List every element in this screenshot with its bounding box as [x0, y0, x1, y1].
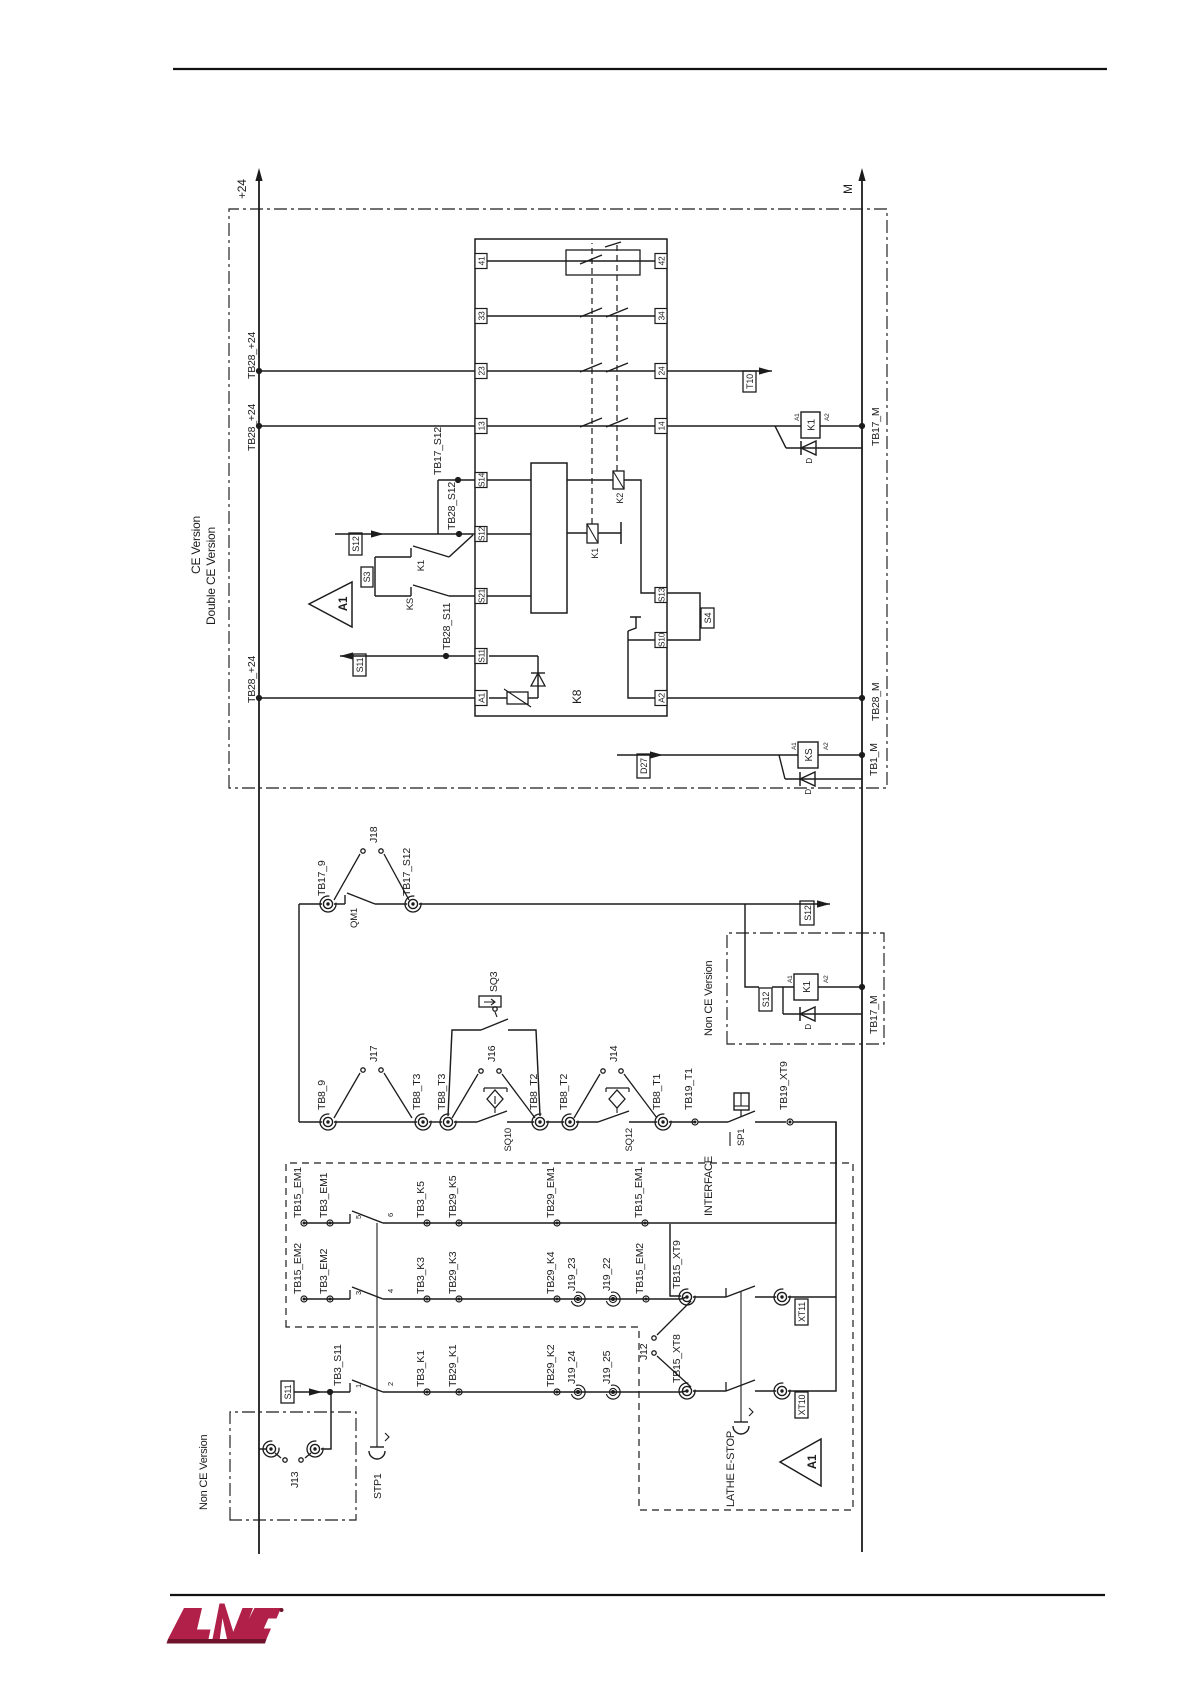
svg-text:S11: S11 [355, 657, 365, 672]
svg-text:41: 41 [477, 256, 487, 265]
terminal 23 of K8 (top row) [475, 364, 487, 379]
header rule [173, 68, 1107, 70]
contact blade 41-42 on K1 linkage [580, 255, 602, 264]
contact blade 41-42 on K2 linkage [605, 242, 621, 247]
terminal TB3_EM2 [327, 1296, 333, 1302]
push button STP1 linkage [369, 1223, 389, 1459]
contact 41-42 of K8 [487, 260, 655, 262]
svg-text:A2: A2 [657, 693, 667, 703]
tag S12 (non-CE) [759, 988, 772, 1011]
svg-text:S12: S12 [761, 992, 771, 1008]
terminal TB29_K2 [554, 1389, 560, 1395]
svg-text:A2: A2 [823, 975, 830, 983]
wire row A to TB15_XT9 [670, 1224, 681, 1296]
wire S11 tag to TB3_S11 [294, 1391, 350, 1393]
svg-text:3: 3 [354, 1291, 363, 1295]
svg-text:K8: K8 [570, 689, 584, 704]
varistor on A1 input [489, 689, 538, 707]
tag D27 [637, 754, 650, 778]
wire coil to M rail [818, 986, 862, 988]
wire +24 to J13 [259, 1448, 266, 1450]
svg-text:A1: A1 [338, 596, 350, 611]
wire [429, 1121, 442, 1123]
svg-text:TB28_+24: TB28_+24 [246, 403, 258, 451]
svg-text:TB15_EM1: TB15_EM1 [633, 1167, 645, 1218]
junction TB28_+24 on +24 rail (23 column) [256, 368, 262, 374]
contact blade (K1 linkage) on 23-24 [580, 363, 602, 372]
svg-text:33: 33 [477, 311, 487, 320]
jumper J17 [334, 1068, 412, 1118]
svg-text:TB29_K5: TB29_K5 [447, 1175, 459, 1218]
svg-text:A1: A1 [791, 742, 798, 750]
detour SQ3 branch [448, 1030, 540, 1116]
contact SP1 with gap [698, 1111, 786, 1122]
relay coil K1 (CE version) [801, 412, 820, 438]
terminal TB29_K4 [554, 1296, 560, 1302]
arrow to T10 [759, 367, 772, 374]
svg-text:TB8_T2: TB8_T2 [528, 1073, 540, 1110]
jumper J13 [275, 1453, 311, 1462]
terminal TB29_K3 [456, 1296, 462, 1302]
wire branch to non-CE K1 [745, 904, 759, 987]
CE Version / Double CE Version dash-dot enclosure [229, 209, 887, 788]
wire terminal 24 to T10 tag [667, 370, 772, 372]
terminal TB8_T3 (2) [440, 1114, 456, 1130]
terminal TB3_EM1 [327, 1220, 333, 1226]
svg-text:TB17_M: TB17_M [868, 996, 880, 1034]
svg-text:TB3_K3: TB3_K3 [415, 1257, 427, 1294]
terminal 33 of K8 (top row) [475, 309, 487, 324]
contact 23-24 of K8 [487, 370, 655, 372]
terminal TB15_EM1 (2) [642, 1220, 648, 1226]
arrow D27 flow [650, 751, 663, 758]
terminal J13 a [263, 1441, 279, 1457]
relay coil K2 (internal) [613, 471, 624, 489]
terminal A1 of K8 (top row) [475, 691, 487, 706]
proximity symbol SQ10 [484, 1088, 507, 1113]
safety relay K8 outline [475, 239, 667, 716]
junction TB28_+24 on +24 rail (13 column) [256, 423, 262, 429]
svg-text:24: 24 [657, 366, 667, 375]
wire K1 contact to S12 terminal [449, 535, 473, 557]
diode D of KS [800, 772, 815, 786]
contact QM1 [334, 893, 407, 904]
arrow S12 flow [371, 530, 384, 537]
diode D non-CE [800, 1007, 815, 1021]
svg-text:TB29_K2: TB29_K2 [545, 1344, 557, 1387]
svg-text:TB15_EM2: TB15_EM2 [634, 1243, 646, 1294]
internal bus end tick [628, 617, 641, 631]
tag S4 [701, 608, 714, 628]
svg-text:TB28_S11: TB28_S11 [441, 602, 453, 650]
svg-text:Double CE Version: Double CE Version [204, 527, 218, 625]
freewheel diode branch of K1 [775, 426, 862, 448]
svg-text:LATHE E-STOP: LATHE E-STOP [725, 1431, 737, 1507]
terminal S13 of K8 (bottom row) [655, 587, 667, 602]
svg-text:A1: A1 [787, 975, 794, 983]
svg-text:J19_22: J19_22 [601, 1257, 613, 1291]
wire +24 to terminal 23 [259, 370, 475, 372]
wire terminal A2 to M rail [667, 697, 862, 699]
svg-text:S12: S12 [351, 536, 361, 552]
contact 13-14 of K8 [487, 425, 655, 427]
jumper J19_23 [571, 1292, 585, 1306]
wire KS coil to M rail [818, 754, 862, 756]
contact STP1 pole 5-6 [350, 1211, 836, 1223]
svg-text:TB29_K3: TB29_K3 [447, 1251, 459, 1294]
contact blade (K2 linkage) on 23-24 [606, 363, 628, 372]
wire logic block to K1 coil [567, 532, 587, 534]
wire +24 to terminal A1 [259, 697, 475, 699]
svg-text:D: D [804, 1024, 813, 1030]
wire S12 terminal to logic block [487, 533, 531, 535]
svg-text:TB29_K1: TB29_K1 [447, 1344, 459, 1387]
terminal J13 b [307, 1441, 323, 1457]
internal common bar under K1 [620, 522, 622, 544]
K2 linkage dashed line [616, 243, 618, 471]
terminal S12 of K8 (top row) [475, 526, 487, 541]
arrow S11 into row [309, 1388, 322, 1395]
terminal 24 of K8 (bottom row) [655, 364, 667, 379]
wire S14 terminal to logic block [487, 479, 531, 481]
junction TB28_S12 [456, 531, 462, 537]
tag S11 [353, 654, 366, 676]
svg-text:TB8_T1: TB8_T1 [651, 1073, 663, 1110]
svg-text:TB3_S11: TB3_S11 [332, 1344, 344, 1386]
svg-text:S3: S3 [362, 572, 372, 583]
terminal TB3_K1 [424, 1389, 430, 1395]
svg-text:S12: S12 [477, 526, 487, 541]
svg-text:TB29_K4: TB29_K4 [545, 1251, 557, 1294]
svg-text:TB3_K5: TB3_K5 [415, 1181, 427, 1218]
svg-text:13: 13 [477, 421, 487, 430]
contact SQ12 with gap [576, 1111, 657, 1122]
svg-text:TB19_T1: TB19_T1 [683, 1068, 695, 1110]
lathe e-stop contact XT9-XT11 [693, 1286, 776, 1297]
terminal 41 of K8 (top row) [475, 254, 487, 269]
contact K1 (monitor) [375, 546, 449, 557]
svg-text:TB17_9: TB17_9 [316, 860, 328, 896]
wire chain riser [299, 1121, 322, 1123]
svg-text:D: D [805, 458, 814, 464]
wire S12 tag to coil [772, 986, 794, 988]
terminal TB15_EM2 [301, 1296, 307, 1302]
contact SQ3 blade [481, 1019, 508, 1030]
arrow S11 flow [340, 652, 353, 659]
terminal TB3_K5 [424, 1220, 430, 1226]
svg-text:CE Version: CE Version [189, 516, 203, 574]
tag S3 [361, 567, 373, 587]
terminal TB29_K5 [456, 1220, 462, 1226]
svg-text:KS: KS [804, 748, 815, 761]
K1 linkage dashed line [591, 243, 593, 524]
svg-text:J19_23: J19_23 [566, 1257, 578, 1291]
warning triangle A1 (lathe) [780, 1439, 821, 1486]
relay coil KS [798, 742, 818, 768]
svg-text:K1: K1 [416, 560, 427, 571]
wire +24 to terminal 13 [259, 425, 475, 427]
svg-text:34: 34 [657, 311, 667, 320]
svg-text:TB17_M: TB17_M [870, 408, 882, 446]
junction TB19_T1 [692, 1119, 698, 1125]
wire S14 bracket [438, 480, 475, 534]
tag T10 [743, 371, 756, 392]
svg-text:KS: KS [405, 598, 416, 610]
wire S11 tag to terminal S11 [340, 655, 475, 657]
svg-text:TB3_EM1: TB3_EM1 [318, 1172, 330, 1218]
net +24 power rail [235, 168, 263, 1554]
junction TB17_M non-CE [859, 984, 865, 990]
wire row C to TB15_XT8 [681, 1391, 687, 1392]
svg-text:S21: S21 [477, 588, 487, 603]
signal D27 wire to relay KS coil [617, 754, 798, 756]
terminal 13 of K8 (top row) [475, 419, 487, 434]
jumper J12 [652, 1301, 691, 1387]
svg-text:1: 1 [354, 1384, 363, 1388]
svg-text:TB8_T3: TB8_T3 [436, 1073, 448, 1110]
tag XT10 [795, 1392, 808, 1418]
tag XT11 [795, 1299, 808, 1325]
svg-text:+24: +24 [235, 179, 249, 199]
terminal 14 of K8 (bottom row) [655, 419, 667, 434]
wire lathe loop [788, 1122, 836, 1391]
svg-text:XT10: XT10 [797, 1394, 807, 1415]
svg-text:K1: K1 [807, 418, 818, 430]
terminal TB8_T3 [415, 1114, 431, 1130]
terminal TB8_T2 (2) [562, 1114, 578, 1130]
footer rule [170, 1594, 1105, 1596]
link S4 between S13 and S10 [667, 593, 700, 640]
svg-text:TB28_+24: TB28_+24 [246, 655, 258, 703]
svg-text:J17: J17 [368, 1045, 380, 1062]
wire J13 to TB3_S11 [321, 1392, 331, 1449]
svg-text:S11: S11 [477, 649, 487, 663]
svg-text:5: 5 [354, 1215, 363, 1219]
junction TB17_S12 [455, 477, 461, 483]
warning triangle A1 (CE) [309, 582, 352, 627]
relay coil K1 (internal) [587, 524, 598, 543]
svg-text:SP1: SP1 [736, 1129, 747, 1146]
svg-text:23: 23 [477, 366, 487, 375]
svg-text:TB19_XT9: TB19_XT9 [778, 1061, 790, 1110]
contact STP1 pole 1-2 [350, 1380, 681, 1392]
svg-text:S14: S14 [477, 472, 487, 487]
terminal TB29_K1 [456, 1389, 462, 1395]
contact STP1 pole 3-4 [350, 1287, 681, 1299]
contact KS (monitor) [375, 585, 475, 596]
freewheel diode branch of KS [779, 755, 862, 779]
svg-text:S10: S10 [657, 632, 667, 647]
junction TB3_S11 [327, 1389, 333, 1395]
junction TB17_M on M rail [859, 423, 865, 429]
svg-text:TB28_M: TB28_M [870, 683, 882, 721]
svg-text:SQ12: SQ12 [624, 1128, 635, 1152]
svg-text:TB15_XT8: TB15_XT8 [671, 1334, 683, 1383]
wire logic block to K2 coil [567, 479, 613, 481]
svg-text:S4: S4 [703, 613, 713, 624]
tag S11 feed [281, 1381, 294, 1403]
terminal XT11 [774, 1289, 790, 1305]
jumper J14 [574, 1069, 657, 1118]
lathe e-stop contact XT8-XT10 [693, 1380, 776, 1391]
svg-text:TB28_+24: TB28_+24 [246, 331, 258, 379]
forced-contact box around 41-42 contact [566, 250, 640, 275]
svg-text:TB3_EM2: TB3_EM2 [318, 1248, 330, 1294]
svg-text:J19_25: J19_25 [601, 1350, 613, 1384]
Non CE Version dash-dot box (J13) [230, 1412, 356, 1520]
svg-text:4: 4 [386, 1289, 395, 1293]
terminal A2 of K8 (bottom row) [655, 691, 667, 706]
freewheel diode branch non-CE K1 [783, 987, 862, 1014]
svg-text:TB15_XT9: TB15_XT9 [671, 1240, 683, 1289]
wire row B top [304, 1298, 350, 1300]
junction TB28_M on M rail [859, 695, 865, 701]
jumper J19_22 [606, 1292, 620, 1306]
svg-text:Non CE Version: Non CE Version [703, 960, 715, 1036]
e-stop button linkage [733, 1292, 753, 1434]
INTERFACE dashed enclosure [286, 1163, 853, 1510]
label CE Version [189, 516, 218, 625]
svg-text:J19_24: J19_24 [566, 1350, 578, 1384]
terminal 42 of K8 (bottom row) [655, 254, 667, 269]
terminal TB15_XT9 [679, 1289, 695, 1305]
svg-text:TB17_S12: TB17_S12 [401, 848, 413, 896]
svg-text:STP1: STP1 [372, 1473, 384, 1499]
contact 33-34 of K8 [487, 315, 655, 317]
wire chain bottom corner [793, 1122, 836, 1224]
contact blade (K1 linkage) on 13-14 [580, 418, 602, 427]
wire A2 S10 internal bus [628, 631, 655, 698]
wire row B to TB15_XT9 [681, 1297, 687, 1299]
svg-text:K1: K1 [590, 548, 600, 559]
contact blade (K1 linkage) on 33-34 [580, 308, 602, 317]
terminal 34 of K8 (bottom row) [655, 309, 667, 324]
terminal XT10 [774, 1383, 790, 1399]
svg-text:42: 42 [657, 256, 667, 265]
svg-text:SQ3: SQ3 [488, 971, 500, 992]
svg-text:S13: S13 [657, 587, 667, 602]
svg-text:J13: J13 [289, 1471, 301, 1488]
svg-text:XT11: XT11 [797, 1302, 807, 1322]
terminal TB17_9 [320, 896, 336, 912]
wire TB8_9 to TB8_T3 [334, 1121, 417, 1123]
wire terminal 14 to relay K1 coil [667, 425, 801, 427]
wire S3 tee [374, 557, 376, 596]
svg-text:K1: K1 [802, 980, 813, 992]
svg-text:INTERFACE: INTERFACE [703, 1156, 715, 1216]
terminal TB15_EM1 [301, 1220, 307, 1226]
svg-text:TB17_S12: TB17_S12 [432, 427, 444, 475]
terminal TB15_XT8 [679, 1383, 695, 1399]
svg-text:QM1: QM1 [349, 908, 360, 928]
terminal TB8_T2 [532, 1114, 548, 1130]
relay K8 internal logic block [531, 463, 567, 613]
wire S21 terminal to logic block [487, 595, 531, 597]
svg-text:S11: S11 [283, 1384, 293, 1399]
svg-text:Non CE Version: Non CE Version [198, 1434, 210, 1510]
net M power rail [841, 168, 866, 1552]
jumper J18 [334, 849, 409, 900]
svg-text:J14: J14 [608, 1045, 620, 1062]
svg-text:TB1_M: TB1_M [868, 743, 880, 776]
svg-text:T10: T10 [745, 374, 755, 389]
svg-text:TB8_9: TB8_9 [316, 1080, 328, 1110]
wire [669, 1121, 695, 1123]
svg-text:TB8_T2: TB8_T2 [558, 1073, 570, 1110]
svg-text:J18: J18 [368, 826, 380, 843]
jumper J16 [452, 1069, 535, 1118]
svg-text:D27: D27 [639, 758, 649, 774]
terminal S11 of K8 (top row) [475, 649, 487, 664]
svg-text:M: M [841, 184, 855, 194]
terminal S14 of K8 (top row) [475, 472, 487, 487]
svg-text:TB15_EM1: TB15_EM1 [292, 1167, 304, 1218]
terminal TB29_EM1 [554, 1220, 560, 1226]
wire S10 to internal bus [628, 639, 655, 641]
svg-text:S12: S12 [803, 905, 813, 921]
svg-text:A2: A2 [823, 742, 830, 750]
wire K1 coil to M rail [820, 425, 862, 427]
jumper J19_25 [606, 1385, 620, 1399]
wire K1 coil to common bar [598, 532, 621, 534]
Non CE Version dash-dot box (K1) [727, 933, 884, 1044]
wire TB17_9 riser [299, 903, 322, 905]
svg-text:J16: J16 [486, 1045, 498, 1062]
svg-text:K2: K2 [615, 493, 625, 504]
terminal TB8_9 [320, 1114, 336, 1130]
wire K2 coil to S13 terminal [624, 480, 655, 593]
terminal TB15_EM2 (2) [643, 1296, 649, 1302]
svg-text:TB8_T3: TB8_T3 [411, 1073, 423, 1110]
pressure switch SP1 symbol [734, 1093, 749, 1117]
tag S12 [800, 901, 814, 925]
svg-text:TB28_S12: TB28_S12 [446, 482, 458, 530]
terminal S10 of K8 (bottom row) [655, 632, 667, 647]
junction TB19_XT9 [787, 1119, 793, 1125]
junction TB1_M on M rail [859, 752, 865, 758]
svg-text:SQ10: SQ10 [503, 1128, 514, 1152]
svg-text:A1: A1 [794, 413, 801, 421]
svg-text:TB3_K1: TB3_K1 [415, 1350, 427, 1387]
svg-text:6: 6 [386, 1213, 395, 1217]
terminal TB17_S12 [405, 896, 421, 912]
rotated schematic (landscape drawing rotated 90deg CCW) [189, 168, 887, 1554]
svg-text:A2: A2 [824, 413, 831, 421]
wire link top [298, 904, 300, 1122]
wire [546, 1121, 564, 1123]
proximity symbol SQ12 [606, 1088, 629, 1113]
terminal S21 of K8 (top row) [475, 588, 487, 603]
svg-text:TB15_EM2: TB15_EM2 [292, 1243, 304, 1294]
wire row A top [304, 1222, 350, 1224]
svg-text:A1: A1 [807, 1454, 819, 1469]
svg-text:2: 2 [386, 1382, 395, 1386]
contact SQ10 with gap [454, 1111, 534, 1122]
wire S12 tag to terminal S12 [335, 533, 475, 535]
tag S12 [349, 533, 362, 555]
LNS logo [167, 1604, 284, 1644]
junction TB28_+24 on +24 rail (A1 column) [256, 695, 262, 701]
contact blade (K2 linkage) on 33-34 [606, 308, 628, 317]
jumper J19_24 [571, 1385, 585, 1399]
switch SQ3 actuator [479, 996, 501, 1017]
label SP1 [730, 1129, 747, 1146]
svg-text:TB29_EM1: TB29_EM1 [545, 1167, 557, 1218]
svg-text:J12: J12 [638, 1343, 650, 1360]
svg-text:14: 14 [657, 421, 667, 430]
junction TB28_S11 [443, 653, 449, 659]
terminal TB3_K3 [424, 1296, 430, 1302]
